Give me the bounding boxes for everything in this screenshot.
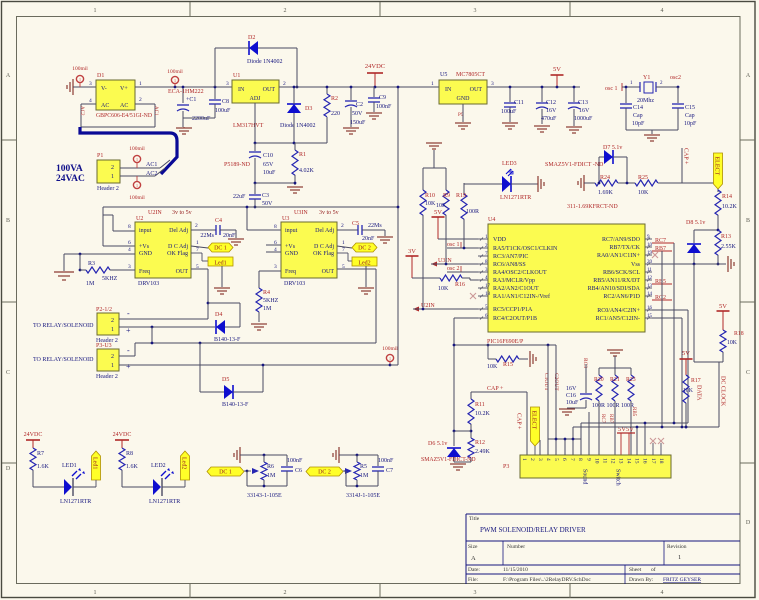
- ground under C5: [377, 236, 393, 238]
- svg-text:100VA: 100VA: [56, 164, 83, 174]
- sideways ground for DC 2: [338, 447, 340, 463]
- svg-text:R25: R25: [638, 175, 648, 181]
- svg-text:U3IN: U3IN: [294, 210, 308, 216]
- ground above R20 R21 R23: [607, 349, 623, 351]
- svg-text:100uF: 100uF: [215, 108, 231, 114]
- svg-text:D3: D3: [305, 106, 312, 112]
- ground under crystal caps: [644, 134, 660, 136]
- svg-text:20Mhz: 20Mhz: [637, 98, 654, 104]
- svg-text:22uF: 22uF: [233, 194, 246, 200]
- capacitor C13 1000uF 16V: [573, 87, 575, 102]
- net banner DC 1: [207, 467, 244, 476]
- svg-text:R23: R23: [626, 377, 636, 383]
- svg-text:ADJ: ADJ: [249, 96, 261, 102]
- bracket over R20 R21 R23: [599, 367, 631, 369]
- svg-text:10uF: 10uF: [566, 400, 579, 406]
- resistor R10 10K: [420, 190, 426, 215]
- svg-text:20nF: 20nF: [223, 233, 236, 239]
- ground under R4: [251, 323, 267, 325]
- svg-text:Vss: Vss: [631, 262, 641, 268]
- svg-text:1M: 1M: [360, 473, 369, 479]
- svg-text:8: 8: [577, 458, 583, 461]
- svg-text:C: C: [746, 370, 750, 376]
- svg-text:C3: C3: [262, 193, 269, 199]
- svg-text:R12: R12: [475, 440, 485, 446]
- svg-text:3: 3: [474, 8, 477, 14]
- svg-text:10pF: 10pF: [684, 121, 697, 127]
- svg-text:100nF: 100nF: [376, 104, 392, 110]
- svg-text:of: of: [651, 566, 656, 573]
- svg-text:R16: R16: [455, 282, 465, 288]
- D7 loop wires: [599, 156, 604, 158]
- svg-text:SMAZ5V1-FDICT-ND: SMAZ5V1-FDICT-ND: [421, 457, 476, 463]
- wire crystal caps common: [626, 129, 678, 131]
- svg-text:DC 1: DC 1: [214, 246, 227, 252]
- ground under C4: [228, 238, 244, 240]
- svg-text:1: 1: [79, 77, 81, 82]
- svg-text:RA1/AN1/C12IN-/Vref: RA1/AN1/C12IN-/Vref: [493, 293, 550, 300]
- resistor R19 100R: [463, 183, 465, 194]
- ground for D1 V- pin: [72, 79, 74, 95]
- svg-text:C15: C15: [685, 105, 695, 111]
- svg-text:5KHZ: 5KHZ: [102, 276, 118, 282]
- svg-text:65V: 65V: [263, 162, 274, 168]
- svg-text:osc2: osc2: [670, 75, 681, 81]
- riser from P2 plus to relay line A: [151, 327, 153, 343]
- svg-text:OUT: OUT: [470, 87, 483, 93]
- svg-text:1: 1: [174, 78, 176, 83]
- svg-text:U5: U5: [440, 72, 447, 78]
- svg-text:C7: C7: [386, 468, 393, 474]
- wire D2 left to input node: [215, 47, 249, 49]
- svg-text:LN1271RTR: LN1271RTR: [149, 499, 180, 505]
- net banner Led1: [73, 486, 96, 488]
- svg-text:3: 3: [89, 81, 92, 87]
- svg-text:5V: 5V: [553, 66, 561, 73]
- svg-text:V+: V+: [120, 86, 128, 92]
- svg-text:4: 4: [89, 98, 92, 104]
- svg-text:U3: U3: [282, 216, 289, 222]
- svg-text:U4: U4: [488, 217, 495, 223]
- svg-text:D: D: [746, 520, 751, 526]
- svg-text:Title: Title: [469, 516, 480, 522]
- top rail DC 2: [339, 454, 378, 456]
- svg-text:22Ms: 22Ms: [200, 233, 214, 239]
- svg-text:C16: C16: [566, 393, 576, 399]
- capacitor C14 10pF: [625, 87, 627, 103]
- ground under Led1: [214, 287, 230, 289]
- wire D1 pin1 to main rail: [135, 86, 232, 88]
- svg-text:R9: R9: [443, 193, 450, 199]
- ADJ node wire: [255, 142, 327, 144]
- potentiometer R6 1M: [261, 462, 267, 480]
- wire LED3 to ground: [511, 183, 538, 185]
- svg-text:R4: R4: [263, 290, 270, 296]
- svg-text:1.6K: 1.6K: [126, 464, 139, 470]
- svg-text:16V: 16V: [579, 108, 590, 114]
- svg-text:4: 4: [128, 247, 131, 253]
- svg-text:DC 2: DC 2: [318, 470, 331, 476]
- svg-text:1M: 1M: [267, 473, 276, 479]
- svg-text:C12: C12: [546, 100, 556, 106]
- svg-text:R5: R5: [360, 464, 367, 470]
- bus wires down from RC7 RB7: [673, 243, 675, 423]
- Vss wire to ground: [652, 263, 726, 265]
- svg-text:R14: R14: [722, 194, 732, 200]
- svg-text:100mil: 100mil: [382, 346, 398, 352]
- svg-text:osc 2: osc 2: [447, 266, 460, 272]
- svg-text:24VDC: 24VDC: [365, 63, 385, 70]
- svg-text:100R 100R 100R: 100R 100R 100R: [592, 403, 634, 409]
- svg-text:A: A: [746, 73, 751, 79]
- svg-text:Freq: Freq: [285, 269, 296, 275]
- ground under C11: [502, 122, 518, 124]
- svg-text:C10: C10: [263, 153, 273, 159]
- svg-text:ECA-1HM222: ECA-1HM222: [168, 89, 204, 95]
- svg-text:R10: R10: [425, 193, 435, 199]
- svg-text:5V: 5V: [434, 209, 442, 216]
- wire Led2 to ground: [365, 266, 367, 287]
- svg-text:2: 2: [139, 97, 142, 103]
- svg-text:C11: C11: [514, 100, 524, 106]
- svg-text:Cap: Cap: [633, 113, 643, 119]
- wire to U2 +Vs pin 6: [103, 245, 135, 247]
- svg-text:C2: C2: [356, 102, 363, 108]
- svg-text:Sheet: Sheet: [629, 567, 642, 573]
- svg-text:10K: 10K: [487, 364, 498, 370]
- svg-text:10K: 10K: [683, 388, 694, 394]
- wire under PIC: [454, 344, 556, 346]
- svg-text:GBPC606-E4/51GI-ND: GBPC606-E4/51GI-ND: [96, 113, 152, 119]
- risers from resistors to P3: [598, 401, 600, 455]
- svg-text:V-: V-: [101, 86, 107, 92]
- sideways ground right of R15: [529, 351, 531, 367]
- svg-text:+C1: +C1: [186, 97, 196, 103]
- risers to P3 pins 15 16: [644, 423, 646, 455]
- svg-text:3v to 5v: 3v to 5v: [172, 210, 192, 216]
- bottom data bus horizontals: [581, 422, 688, 424]
- svg-text:LM317HVT: LM317HVT: [233, 123, 264, 129]
- wire U1 out to rail: [279, 86, 439, 88]
- svg-text:1M: 1M: [86, 281, 95, 287]
- svg-text:3: 3: [537, 458, 543, 461]
- resistor R16 10K: [412, 277, 440, 279]
- risers from pins 4 and 5: [547, 345, 549, 455]
- svg-text:Date:: Date:: [468, 567, 480, 573]
- svg-text:1: 1: [111, 327, 114, 333]
- resistor R24 1.69K: [595, 180, 618, 186]
- svg-text:1: 1: [139, 81, 142, 87]
- svg-text:R8: R8: [126, 451, 133, 457]
- svg-text:2: 2: [283, 81, 286, 87]
- svg-text:C6: C6: [295, 468, 302, 474]
- svg-text:D C Adj: D C Adj: [168, 244, 188, 250]
- resistor R17 10K: [683, 375, 689, 403]
- svg-text:5V: 5V: [682, 350, 690, 357]
- svg-text:R19: R19: [456, 193, 466, 199]
- net label U3IN wire: [431, 262, 437, 267]
- svg-text:14: 14: [626, 458, 632, 464]
- svg-text:Sound: Sound: [582, 469, 588, 484]
- svg-text:U2: U2: [136, 216, 143, 222]
- svg-text:D6 5.1v: D6 5.1v: [428, 441, 447, 447]
- wire P2 pin1 plus to D4 line: [119, 326, 215, 328]
- svg-text:TO RELAY/SOLENOID: TO RELAY/SOLENOID: [33, 357, 94, 363]
- svg-text:3: 3: [274, 264, 277, 270]
- resistor R1 4.02K: [292, 150, 298, 175]
- svg-text:input: input: [139, 228, 152, 234]
- svg-text:2.49K: 2.49K: [475, 449, 491, 455]
- svg-text:9: 9: [585, 458, 591, 461]
- wire Y1 to osc2: [656, 86, 678, 88]
- sideways ground right of LED3: [537, 176, 539, 192]
- svg-text:U1: U1: [233, 73, 240, 79]
- svg-text:10K: 10K: [438, 286, 449, 292]
- svg-text:P3: P3: [503, 464, 509, 470]
- svg-text:1.6K: 1.6K: [37, 464, 50, 470]
- svg-text:R11: R11: [475, 402, 485, 408]
- svg-text:2: 2: [111, 165, 114, 171]
- svg-text:1000uF: 1000uF: [574, 116, 593, 122]
- svg-text:RC0/AN4/C2IN+: RC0/AN4/C2IN+: [597, 308, 640, 314]
- svg-text:AC2: AC2: [146, 171, 157, 177]
- svg-text:1: 1: [678, 554, 681, 561]
- resistor R15 10K: [454, 317, 478, 319]
- svg-text:Header 2: Header 2: [96, 374, 118, 380]
- svg-text:7: 7: [342, 247, 345, 253]
- potentiometer R5 1M: [354, 462, 360, 480]
- svg-text:3: 3: [226, 81, 229, 87]
- svg-text:Drawn By:: Drawn By:: [629, 577, 654, 583]
- svg-text:RA3/MCLR/Vpp: RA3/MCLR/Vpp: [493, 278, 535, 284]
- svg-text:RA0/AN1/C1IN+: RA0/AN1/C1IN+: [597, 253, 641, 259]
- ground under C13: [566, 126, 582, 128]
- svg-text:D5: D5: [222, 377, 229, 383]
- net banner ELECT bottom: [531, 407, 540, 446]
- svg-text:2: 2: [341, 223, 344, 229]
- svg-text:470uF: 470uF: [541, 116, 557, 122]
- U2 GND wire to ground: [64, 253, 135, 255]
- svg-text:Header 2: Header 2: [97, 186, 119, 192]
- svg-text:RC3/AN7/PIC: RC3/AN7/PIC: [493, 254, 528, 260]
- svg-text:2: 2: [111, 318, 114, 324]
- cap sense rail: [471, 391, 527, 393]
- svg-text:Size: Size: [468, 544, 478, 550]
- svg-text:C9: C9: [379, 95, 386, 101]
- svg-text:RB6/SCK/SCL: RB6/SCK/SCL: [603, 270, 640, 276]
- svg-text:CAP +: CAP +: [516, 413, 522, 430]
- svg-text:15: 15: [634, 458, 640, 464]
- node wire C10 R1: [255, 182, 295, 184]
- svg-text:50V: 50V: [262, 201, 273, 207]
- 3v to 5v rail: [103, 206, 398, 208]
- svg-text:18: 18: [658, 458, 664, 464]
- diode D3 1N4002: [287, 104, 301, 113]
- wire P3-U3 pin1 onto line B: [119, 364, 390, 366]
- svg-text:AC1: AC1: [146, 162, 157, 168]
- wire D1 AC pin2 loop: [135, 103, 155, 105]
- svg-text:R20: R20: [594, 377, 604, 383]
- svg-text:DC 1: DC 1: [219, 470, 232, 476]
- resistor R12 2.49K: [468, 438, 474, 458]
- svg-text:osc 1: osc 1: [447, 242, 460, 248]
- svg-text:C13: C13: [578, 100, 588, 106]
- svg-text:1: 1: [389, 356, 391, 361]
- svg-text:D1: D1: [97, 73, 104, 79]
- ground under C2: [343, 127, 359, 129]
- svg-text:Del Adj: Del Adj: [315, 228, 334, 234]
- wire osc1 to Y1: [622, 86, 640, 88]
- svg-text:AC1: AC1: [153, 106, 158, 116]
- wire U5 GND to ground: [462, 104, 464, 122]
- capacitor C11 100uF: [509, 87, 511, 102]
- ground under Led2: [358, 287, 374, 289]
- svg-text:LED1: LED1: [62, 463, 77, 469]
- svg-text:Switch: Switch: [615, 469, 621, 486]
- ground above pullups: [426, 142, 442, 144]
- svg-text:4: 4: [545, 458, 551, 461]
- svg-text:8: 8: [274, 224, 277, 230]
- svg-text:100R: 100R: [466, 209, 479, 215]
- wire AC2 from P1 pin1: [120, 175, 155, 177]
- svg-text:Revision: Revision: [667, 544, 687, 550]
- svg-text:3v to 5v: 3v to 5v: [319, 210, 339, 216]
- svg-text:100nF: 100nF: [378, 458, 394, 464]
- ground at left of U2: [54, 272, 74, 280]
- svg-text:4: 4: [661, 590, 664, 596]
- svg-text:-: -: [127, 309, 130, 318]
- svg-text:16V: 16V: [566, 386, 577, 392]
- svg-text:100mil: 100mil: [72, 66, 88, 72]
- svg-text:C8: C8: [222, 99, 229, 105]
- wire D2 right to output node: [258, 47, 297, 49]
- ground under C9: [366, 112, 382, 114]
- svg-text:R24: R24: [600, 175, 610, 181]
- svg-text:P3-U3: P3-U3: [96, 343, 112, 349]
- svg-text:LN1271RTR: LN1271RTR: [500, 195, 531, 201]
- svg-text:+Vs: +Vs: [285, 244, 296, 250]
- svg-text:ELECT: ELECT: [714, 157, 720, 176]
- resistor R8 1.6K: [119, 448, 125, 470]
- ground under R1: [287, 186, 303, 188]
- svg-text:D: D: [6, 466, 11, 472]
- svg-text:TO RELAY/SOLENOID: TO RELAY/SOLENOID: [33, 323, 94, 329]
- svg-text:1: 1: [136, 183, 138, 188]
- vertical to DC CLOCK: [718, 362, 720, 427]
- svg-text:SMAZ5V1-FDICT -ND: SMAZ5V1-FDICT -ND: [545, 162, 604, 168]
- D4 loop wires: [225, 326, 240, 328]
- svg-text:2: 2: [284, 590, 287, 596]
- svg-text:R2: R2: [331, 96, 338, 102]
- svg-text:11: 11: [601, 458, 607, 464]
- svg-text:3: 3: [474, 590, 477, 596]
- svg-text:100mil: 100mil: [129, 195, 145, 201]
- svg-text:RC7: RC7: [600, 414, 605, 424]
- svg-text:File:: File:: [468, 577, 479, 583]
- wire P3-U3 pin2: [119, 355, 135, 357]
- svg-text:100uF: 100uF: [501, 109, 517, 115]
- svg-text:OUT: OUT: [322, 269, 335, 275]
- svg-text:17: 17: [650, 458, 656, 464]
- svg-text:22Ms: 22Ms: [368, 223, 382, 229]
- resistor R20 100R: [596, 375, 602, 401]
- svg-text:RA2/AN2/C1OUT: RA2/AN2/C1OUT: [493, 286, 539, 292]
- svg-text:D C Adj: D C Adj: [314, 244, 334, 250]
- svg-text:D2: D2: [248, 35, 255, 41]
- svg-text:C4: C4: [215, 218, 222, 224]
- resistor R3 1M: [79, 254, 81, 270]
- svg-text:PWM SOLENOID/RELAY DRIVER: PWM SOLENOID/RELAY DRIVER: [480, 526, 586, 534]
- wire U1 ADJ down: [254, 103, 256, 143]
- svg-text:R1: R1: [299, 152, 306, 158]
- svg-text:CAP +: CAP +: [683, 148, 689, 165]
- resistor R9 10K: [443, 190, 449, 215]
- svg-text:10uF: 10uF: [263, 170, 276, 176]
- svg-text:PIC16F690E/P: PIC16F690E/P: [487, 339, 524, 345]
- sideways ground left of R24: [583, 175, 585, 191]
- ground under C12: [534, 125, 550, 127]
- svg-text:24VAC: 24VAC: [56, 174, 85, 184]
- svg-text:GND: GND: [457, 96, 471, 102]
- svg-text:1: 1: [94, 8, 97, 14]
- capacitor C10 10uF 65V: [254, 143, 256, 151]
- svg-text:DC CLOCK: DC CLOCK: [720, 376, 726, 407]
- capacitor C15 10pF: [677, 87, 679, 103]
- resistor R13 2.55K: [715, 230, 721, 255]
- svg-text:RC4/C2OUT/P1B: RC4/C2OUT/P1B: [493, 316, 537, 322]
- svg-text:U2IN: U2IN: [148, 210, 162, 216]
- svg-text:11/15/2010: 11/15/2010: [503, 567, 528, 573]
- svg-text:1: 1: [431, 81, 434, 87]
- svg-text:1.69K: 1.69K: [598, 190, 614, 196]
- svg-text:3: 3: [491, 81, 494, 87]
- svg-text:16V: 16V: [546, 108, 557, 114]
- svg-text:2: 2: [284, 8, 287, 14]
- wire rail to U3 input pin 8: [246, 207, 248, 230]
- svg-text:B: B: [6, 218, 10, 224]
- wire R24 to R25: [618, 182, 635, 184]
- svg-text:RC3: RC3: [582, 358, 588, 368]
- svg-text:-: -: [127, 346, 130, 355]
- svg-text:50V: 50V: [352, 111, 363, 117]
- svg-text:2: 2: [529, 458, 535, 461]
- svg-text:10.2K: 10.2K: [475, 411, 491, 417]
- svg-text:Number: Number: [507, 544, 525, 550]
- svg-text:GND: GND: [139, 251, 153, 257]
- svg-text:220: 220: [331, 111, 340, 117]
- svg-text:16: 16: [642, 458, 648, 464]
- ground under C16: [559, 408, 575, 410]
- svg-text:RC1/AN5/C12IN-: RC1/AN5/C12IN-: [596, 316, 640, 322]
- capacitor C2 150uF 50V: [350, 87, 352, 100]
- svg-text:24VDC: 24VDC: [24, 432, 43, 438]
- svg-text:10: 10: [593, 458, 599, 464]
- wire U5 out to 5V rail: [487, 86, 580, 88]
- wire R25 to cap node: [658, 182, 714, 184]
- svg-text:10K: 10K: [425, 201, 436, 207]
- svg-text:24VDC: 24VDC: [113, 432, 132, 438]
- svg-text:10.2K: 10.2K: [722, 204, 738, 210]
- svg-text:AC: AC: [120, 103, 128, 109]
- svg-text:MC7805CT: MC7805CT: [456, 72, 485, 78]
- svg-text:ELECT: ELECT: [531, 411, 537, 430]
- svg-text:RB7: RB7: [608, 414, 613, 424]
- svg-text:1: 1: [111, 363, 114, 369]
- svg-text:4.02K: 4.02K: [299, 168, 315, 174]
- capacitor C1 2200uF: [182, 87, 184, 103]
- svg-text:OUT: OUT: [176, 269, 189, 275]
- svg-text:2.55K: 2.55K: [721, 244, 737, 250]
